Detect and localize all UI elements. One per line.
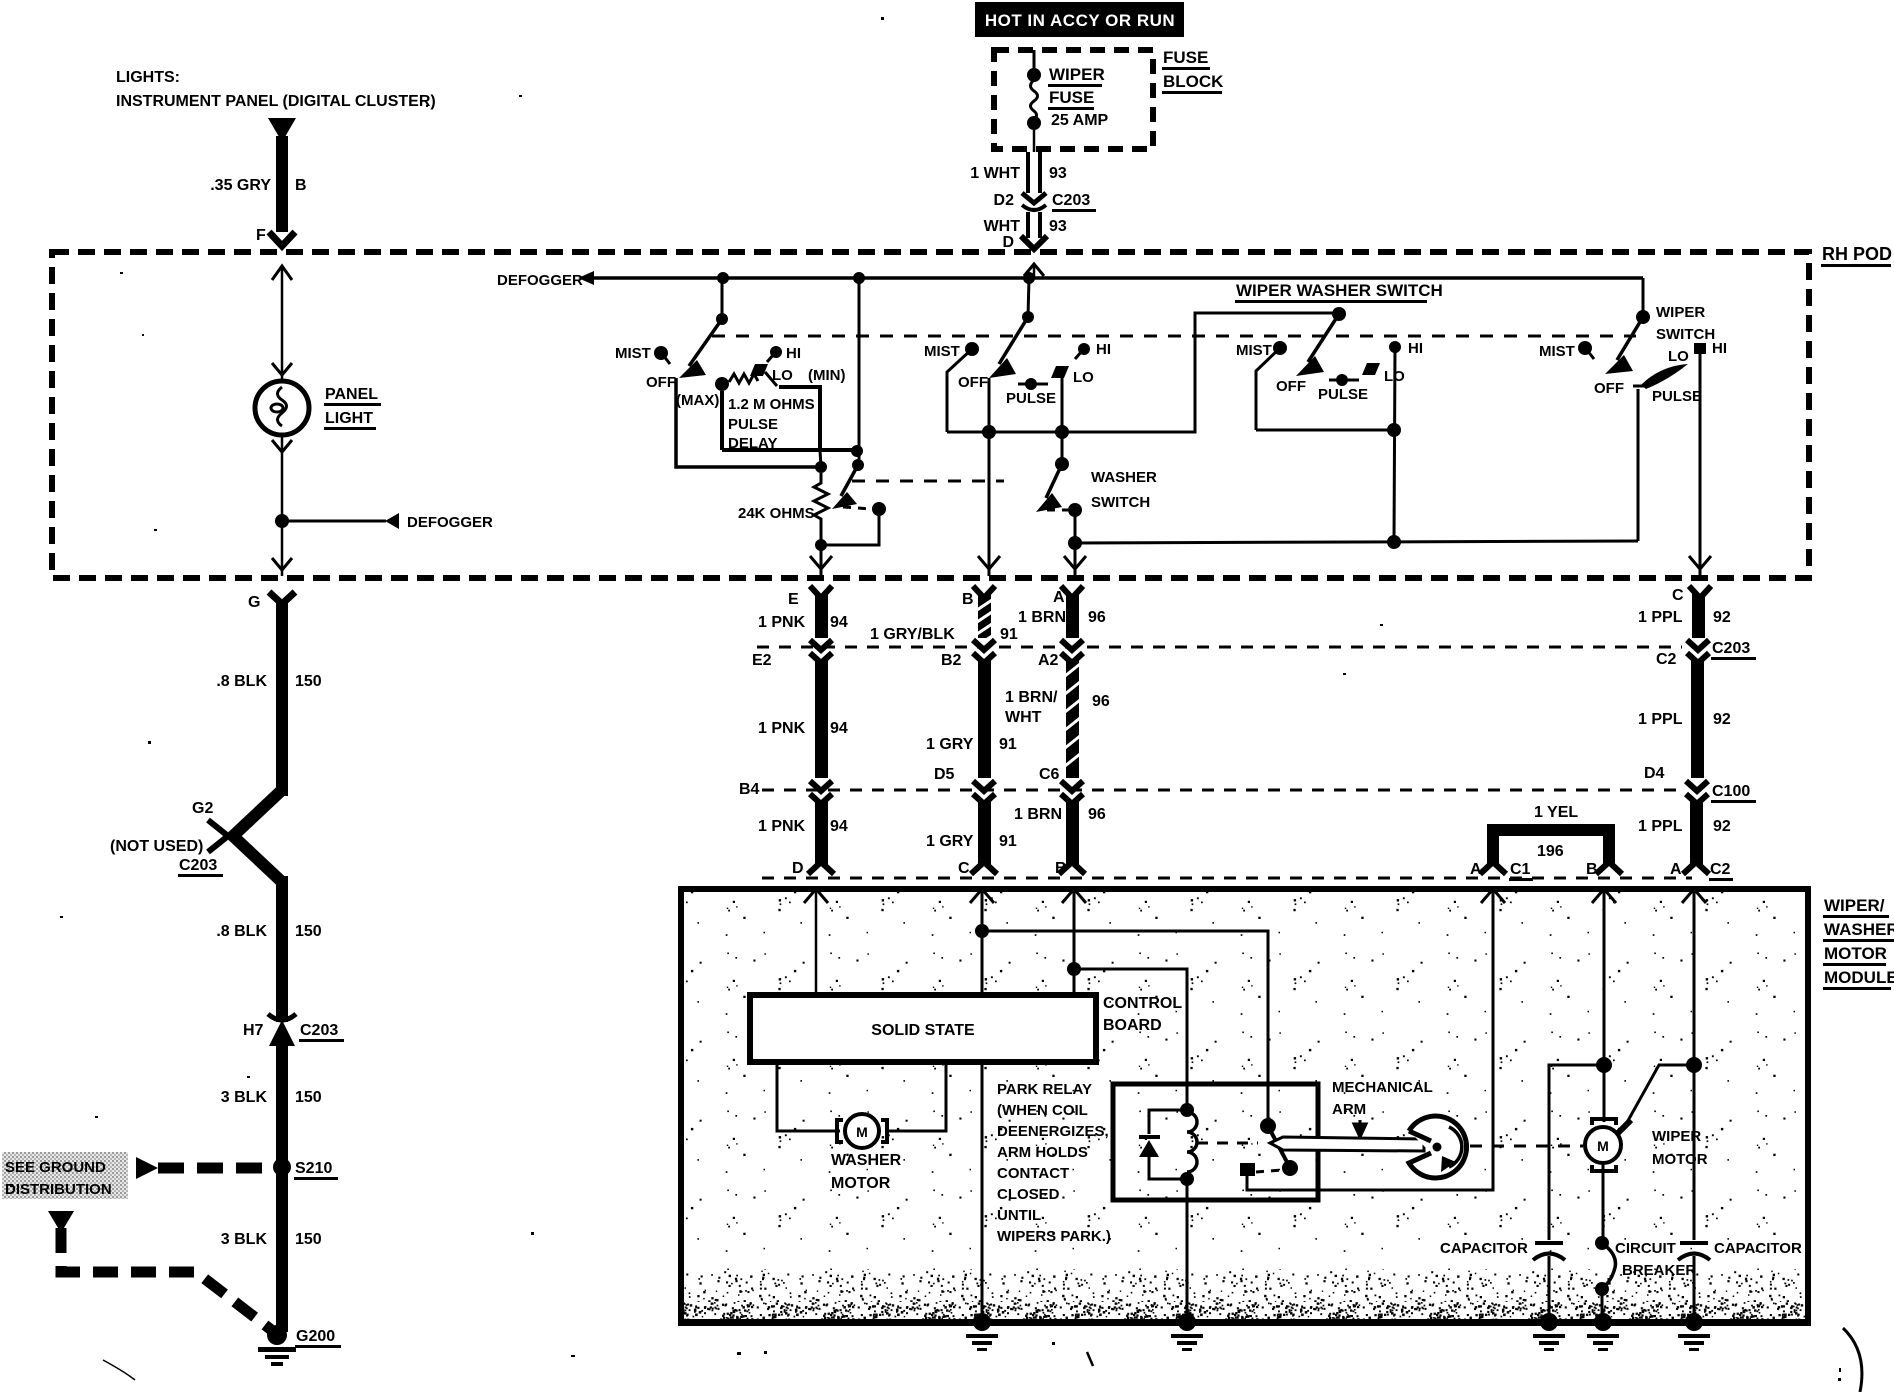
svg-text:91: 91 xyxy=(999,833,1017,850)
label 3 BLK 150 (lower) xyxy=(221,1231,322,1248)
label 1 WHT / 93 xyxy=(970,165,1067,182)
label 1 PNK 94 (bot) xyxy=(758,818,848,835)
contact PULSE assy4 (swoosh) xyxy=(1633,364,1702,405)
label .8 BLK 150 (upper) xyxy=(216,673,321,690)
svg-text:94: 94 xyxy=(830,614,848,631)
svg-text:1 PNK: 1 PNK xyxy=(758,614,806,631)
svg-text:CLOSED: CLOSED xyxy=(997,1186,1060,1203)
label A C1 xyxy=(1470,861,1533,881)
svg-text:1 WHT: 1 WHT xyxy=(970,165,1020,182)
svg-text:1 PPL: 1 PPL xyxy=(1638,609,1683,626)
defogger off-page arrow xyxy=(578,271,594,285)
svg-text:E: E xyxy=(788,591,799,608)
svg-text:1 GRY: 1 GRY xyxy=(926,833,974,850)
wire box bottom to MIN xyxy=(820,448,859,452)
washer switch 1 fixed contact xyxy=(872,502,886,516)
junction assy4 pivot xyxy=(1636,310,1650,324)
svg-text:94: 94 xyxy=(830,720,848,737)
switch arm assy4 xyxy=(1605,317,1643,374)
scan artifact dots xyxy=(10,17,1383,1366)
svg-text:FUSE: FUSE xyxy=(1049,88,1094,107)
fuse block label xyxy=(1162,48,1224,94)
wire 1 WHT 93 (double walled) xyxy=(1028,152,1040,193)
label C100 row xyxy=(1711,783,1756,803)
wire MIN drop xyxy=(858,278,861,465)
svg-text:B: B xyxy=(1586,861,1598,878)
terminal G xyxy=(248,592,295,611)
svg-text:HI: HI xyxy=(1096,341,1111,358)
wire relay coil to ground xyxy=(1186,1179,1189,1318)
connector row module dashed xyxy=(762,877,1692,880)
junction assy1 pivot xyxy=(716,313,728,325)
svg-text:B: B xyxy=(962,591,974,608)
wire assy2 OFF drop xyxy=(988,378,991,432)
junction washer2-pulse bus xyxy=(1068,536,1082,550)
off page arrow ground distribution xyxy=(136,1157,158,1179)
label C203 row xyxy=(1711,640,1756,660)
svg-text:C203: C203 xyxy=(1712,640,1750,657)
wire 3 BLK 150 (upper) xyxy=(276,1042,288,1162)
label CIRCUIT BREAKER xyxy=(1615,1240,1696,1279)
solid state control board xyxy=(750,995,1096,1062)
svg-text:WHT: WHT xyxy=(1005,709,1042,726)
label 1 GRY 91 (mid) xyxy=(926,736,1017,753)
svg-text:(NOT USED): (NOT USED) xyxy=(110,838,203,855)
connector row C203 dashed xyxy=(757,646,1682,649)
wire pulse drop assy4 xyxy=(1637,389,1640,541)
wire assembly4 feed drop xyxy=(1642,278,1645,317)
relay coil xyxy=(1180,1103,1197,1186)
washer switch 2 dashed link xyxy=(1047,509,1068,512)
svg-text:WASHER: WASHER xyxy=(1824,920,1894,939)
wire fuse to connector xyxy=(1033,130,1036,152)
label 1 PNK 94 (top) xyxy=(758,614,848,631)
svg-text:WASHER: WASHER xyxy=(1091,469,1157,486)
scan artifact curve xyxy=(103,1360,135,1380)
potentiometer 1.2M squiggle xyxy=(715,374,758,391)
wire LO to washer pivot xyxy=(1061,432,1064,464)
label .8 BLK 150 (lower) xyxy=(216,923,321,940)
svg-text:PULSE: PULSE xyxy=(1652,388,1702,405)
svg-text:CAPACITOR: CAPACITOR xyxy=(1440,1240,1528,1257)
node C module entry xyxy=(970,889,994,995)
label PARK RELAY note xyxy=(997,1081,1111,1245)
relay blade xyxy=(1260,1118,1298,1176)
junction defogger-assy2 xyxy=(1023,272,1035,284)
svg-text:G2: G2 xyxy=(192,800,213,817)
mechanical arm bar xyxy=(1270,1137,1424,1151)
svg-text:A: A xyxy=(1053,589,1065,606)
pulse bus wire y543 xyxy=(1075,541,1638,543)
wire E (1 PNK 94) pod to module xyxy=(808,586,834,874)
wire D feed into defogger bus xyxy=(1033,264,1036,278)
svg-text:LO: LO xyxy=(1668,348,1689,365)
junction E wire xyxy=(815,539,827,551)
ground (left capacitor) xyxy=(1533,1313,1565,1351)
module label xyxy=(1823,896,1894,990)
wire .8 BLK 150 (lower) xyxy=(276,876,288,1022)
svg-text:MIST: MIST xyxy=(1236,342,1272,359)
svg-text:91: 91 xyxy=(999,736,1017,753)
svg-text:196: 196 xyxy=(1537,843,1564,860)
park relay box xyxy=(1113,1084,1318,1200)
wire .35 GRY B xyxy=(276,136,288,232)
label 1 GRY/BLK 91 xyxy=(870,626,1018,643)
RH POD label xyxy=(1821,244,1892,267)
svg-text:DISTRIBUTION: DISTRIBUTION xyxy=(5,1181,112,1198)
svg-text:A2: A2 xyxy=(1038,652,1059,669)
label 1 BRN 96 (top) xyxy=(1018,609,1106,626)
wire assy1 OFF return xyxy=(676,378,821,467)
label LIGHTS: INSTRUMENT PANEL xyxy=(116,69,436,110)
junction B-capacitor xyxy=(1596,1057,1612,1073)
label D2 / C203 xyxy=(994,192,1096,212)
node A C2 module entry xyxy=(1682,889,1706,1240)
wiper fuse 25A xyxy=(1027,68,1041,130)
label A C2 (bottom) xyxy=(1670,861,1733,881)
svg-text:OFF: OFF xyxy=(1594,380,1624,397)
svg-text:HI: HI xyxy=(786,345,801,362)
washer switch 2 fixed contact xyxy=(1068,503,1082,517)
assy3 bus xyxy=(1256,429,1394,432)
label PANEL LIGHT xyxy=(324,386,381,430)
wire B (GRY/BLK - GRY 91) pod to module xyxy=(971,586,997,874)
mechanical coupling dashed line (wiper) xyxy=(712,335,1636,338)
svg-text:B: B xyxy=(295,177,307,194)
wire assy2 pivot feed xyxy=(1028,278,1029,317)
label 1 PNK 94 (mid) xyxy=(758,720,848,737)
wire WHT 93 (double walled) xyxy=(1028,212,1040,238)
contact PULSE assy2 xyxy=(1006,378,1056,407)
connector G2 not used jog xyxy=(208,790,282,882)
label 1.2 M OHMS PULSE DELAY xyxy=(728,396,815,452)
label WHT / 93 / D xyxy=(984,218,1067,251)
svg-text:91: 91 xyxy=(1000,626,1018,643)
label 1 PPL 92 (bot) xyxy=(1638,818,1731,835)
WIPER WASHER SWITCH title xyxy=(1235,281,1443,303)
svg-text:C: C xyxy=(1672,587,1684,604)
svg-text:DEFOGGER: DEFOGGER xyxy=(497,272,583,289)
svg-text:MIST: MIST xyxy=(924,343,960,360)
contact LO assy1 (pot top) xyxy=(750,364,793,386)
contact HI assy2 xyxy=(1075,341,1111,359)
junction defogger-min wire xyxy=(853,272,865,284)
svg-text:92: 92 xyxy=(1713,609,1731,626)
washer switch 1 dashed link xyxy=(843,507,872,509)
contact MIST assy4 xyxy=(1539,341,1594,360)
svg-text:E2: E2 xyxy=(752,652,772,669)
svg-text:MIST: MIST xyxy=(615,345,651,362)
svg-text:H7: H7 xyxy=(243,1022,264,1039)
washer switch 2 pivot xyxy=(1055,457,1069,471)
svg-text:(WHEN COIL: (WHEN COIL xyxy=(997,1102,1088,1119)
svg-text:25 AMP: 25 AMP xyxy=(1051,112,1109,129)
relay mech dashed link xyxy=(1197,1142,1258,1145)
node D module entry xyxy=(804,889,828,995)
svg-text:MIST: MIST xyxy=(1539,343,1575,360)
svg-text:SOLID STATE: SOLID STATE xyxy=(871,1022,975,1039)
wire box corner drop xyxy=(820,450,821,467)
svg-text:LO: LO xyxy=(1073,369,1094,386)
wire wiper motor to breaker xyxy=(1602,1163,1605,1243)
contact PULSE assy3 xyxy=(1318,374,1368,403)
svg-text:A: A xyxy=(1470,861,1482,878)
wire fuse feed xyxy=(1033,50,1036,73)
washer motor loop right xyxy=(885,1062,946,1131)
node B module entry (right) xyxy=(1592,889,1616,1122)
svg-text:CAPACITOR: CAPACITOR xyxy=(1714,1240,1802,1257)
contact MIST assy2 xyxy=(924,342,979,432)
svg-text:D2: D2 xyxy=(994,192,1015,209)
label 1 PPL 92 (mid) xyxy=(1638,711,1731,728)
svg-text:F: F xyxy=(256,227,266,244)
node B exit arrow xyxy=(978,556,1000,569)
wire A (BRN - BRN/WHT 96) pod to module xyxy=(1059,586,1085,874)
svg-text:D: D xyxy=(1002,234,1014,251)
assy2 bus xyxy=(947,313,1339,432)
svg-text:BREAKER: BREAKER xyxy=(1622,1262,1696,1279)
svg-text:96: 96 xyxy=(1088,609,1106,626)
wire F to panel light xyxy=(281,266,284,381)
cam to motor dashed link xyxy=(1470,1145,1583,1148)
wire 3 BLK 150 (lower) xyxy=(276,1172,288,1332)
junction defogger-assy1 xyxy=(717,272,729,284)
wire A to wiper motor xyxy=(1625,1065,1694,1126)
svg-text:1 GRY: 1 GRY xyxy=(926,736,974,753)
svg-text:MOTOR: MOTOR xyxy=(831,1175,891,1192)
svg-text:MOTOR: MOTOR xyxy=(1824,944,1887,963)
svg-text:150: 150 xyxy=(295,1089,322,1106)
feed arrow (lights) xyxy=(268,118,296,142)
diode xyxy=(1139,1110,1187,1179)
svg-text:1 YEL: 1 YEL xyxy=(1534,804,1578,821)
svg-text:150: 150 xyxy=(295,1231,322,1248)
see ground distribution halftone xyxy=(2,1152,128,1199)
wire C through board to ground xyxy=(981,1062,984,1318)
svg-text:DEFOGGER: DEFOGGER xyxy=(407,514,493,531)
svg-text:WIPER WASHER SWITCH: WIPER WASHER SWITCH xyxy=(1236,281,1443,300)
node F entry arrow xyxy=(272,266,292,280)
wire HI drop assy3 xyxy=(1394,347,1395,542)
mechanical coupling dashed line (washer) xyxy=(852,480,1004,483)
splice S210 xyxy=(273,1158,338,1180)
svg-text:C203: C203 xyxy=(179,857,217,874)
contact HI assy4 xyxy=(1694,340,1727,357)
svg-text:C1: C1 xyxy=(1510,861,1531,878)
svg-text:B: B xyxy=(1055,860,1067,877)
ground (C wire) xyxy=(966,1313,998,1351)
svg-text:OFF: OFF xyxy=(1276,378,1306,395)
wire C branch to park relay blade xyxy=(975,924,1268,1126)
node E exit arrow xyxy=(810,556,832,569)
ground (right capacitor) xyxy=(1678,1313,1710,1351)
terminal D at RH POD xyxy=(1021,236,1047,249)
svg-text:93: 93 xyxy=(1049,218,1067,235)
wiper motor M xyxy=(1585,1119,1631,1171)
fuse block dashed box xyxy=(994,50,1153,149)
park cam xyxy=(1409,1116,1467,1178)
contact HI assy3 xyxy=(1389,340,1423,357)
label .35 GRY / B xyxy=(210,177,306,194)
other ground feed arrow xyxy=(48,1211,74,1233)
svg-text:SWITCH: SWITCH xyxy=(1656,326,1715,343)
ground (relay coil) xyxy=(1171,1313,1203,1351)
wire washer1 return xyxy=(821,509,879,545)
wire assy2 LO drop xyxy=(1061,375,1064,432)
ground G200 xyxy=(258,1325,341,1366)
washer switch 2 arm xyxy=(1036,464,1062,512)
label CONTROL BOARD xyxy=(1103,995,1182,1034)
wire relay contact to A/C1 xyxy=(1247,889,1493,1190)
svg-text:150: 150 xyxy=(295,673,322,690)
contact MIST assy3 xyxy=(1236,341,1287,430)
svg-text:1 PNK: 1 PNK xyxy=(758,818,806,835)
label 1 PPL 92 (top) xyxy=(1638,609,1731,626)
svg-text:.35 GRY: .35 GRY xyxy=(210,177,271,194)
connector C203 pin D2 symbol xyxy=(1022,193,1046,210)
svg-text:C100: C100 xyxy=(1712,783,1750,800)
svg-text:93: 93 xyxy=(1049,165,1067,182)
wire C (1 PPL 92) pod to module xyxy=(1683,586,1711,874)
label WIPER SWITCH xyxy=(1656,304,1715,343)
jumper 1 YEL 196 xyxy=(1480,824,1622,874)
svg-text:150: 150 xyxy=(295,923,322,940)
svg-text:RH POD: RH POD xyxy=(1822,244,1892,264)
relay fixed contact xyxy=(1240,1163,1282,1176)
svg-text:HI: HI xyxy=(1408,340,1423,357)
label WIPER MOTOR xyxy=(1652,1128,1708,1168)
node D entry arrow xyxy=(1024,264,1044,276)
svg-text:G200: G200 xyxy=(296,1328,335,1345)
wire .8 BLK 150 (upper) xyxy=(276,600,288,796)
wiper washer motor module box xyxy=(678,889,1811,1326)
node B module entry xyxy=(1062,889,1086,995)
svg-text:D5: D5 xyxy=(934,766,955,783)
wire B drop to exit xyxy=(988,432,991,576)
wire to terminal E xyxy=(820,545,823,576)
label WASHER SWITCH xyxy=(1091,469,1157,511)
power banner HOT IN ACCY OR RUN xyxy=(975,2,1184,37)
svg-text:HOT IN ACCY OR RUN: HOT IN ACCY OR RUN xyxy=(985,11,1175,30)
svg-text:96: 96 xyxy=(1092,693,1110,710)
svg-text:WIPER: WIPER xyxy=(1652,1128,1701,1145)
svg-text:3 BLK: 3 BLK xyxy=(221,1089,268,1106)
dashed ground wire xyxy=(61,1228,274,1332)
svg-text:(MAX): (MAX) xyxy=(676,392,719,409)
junction box-min xyxy=(851,445,863,457)
svg-text:C6: C6 xyxy=(1039,766,1060,783)
svg-text:WHT: WHT xyxy=(984,218,1021,235)
svg-text:SEE GROUND: SEE GROUND xyxy=(5,1159,106,1176)
svg-text:1.2 M OHMS: 1.2 M OHMS xyxy=(728,396,815,413)
svg-text:C: C xyxy=(958,860,970,877)
capacitor left xyxy=(1533,1243,1565,1318)
svg-text:1 PNK: 1 PNK xyxy=(758,720,806,737)
svg-text:C2: C2 xyxy=(1656,651,1677,668)
junction assy3-pulse bus xyxy=(1387,535,1401,549)
wire assy1 pivot feed xyxy=(721,278,724,319)
svg-text:1 PPL: 1 PPL xyxy=(1638,711,1683,728)
node A C1 module entry xyxy=(1481,889,1505,903)
svg-text:CONTROL: CONTROL xyxy=(1103,995,1182,1012)
svg-text:1 BRN: 1 BRN xyxy=(1018,609,1066,626)
svg-text:UNTIL: UNTIL xyxy=(997,1207,1041,1224)
ground (circuit breaker) xyxy=(1587,1313,1619,1351)
junction A-motor xyxy=(1686,1057,1702,1073)
svg-text:96: 96 xyxy=(1088,806,1106,823)
svg-text:C203: C203 xyxy=(1052,192,1090,209)
resistor 24K OHMS xyxy=(814,473,828,545)
contact MIST assy1 xyxy=(615,345,670,364)
junction bus-LO xyxy=(1055,425,1069,439)
svg-text:MODULE: MODULE xyxy=(1824,968,1894,987)
svg-text:WIPER: WIPER xyxy=(1049,65,1105,84)
svg-text:PULSE: PULSE xyxy=(728,416,778,433)
svg-text:.8 BLK: .8 BLK xyxy=(216,673,267,690)
washer motor M xyxy=(837,1114,887,1148)
svg-text:B2: B2 xyxy=(941,652,962,669)
circuit breaker xyxy=(1595,1236,1616,1318)
node A exit arrow xyxy=(1064,556,1086,569)
svg-text:S210: S210 xyxy=(295,1160,332,1177)
washer switch 1 pivot xyxy=(852,459,864,471)
washer motor loop left xyxy=(777,1062,840,1131)
label G2 (NOT USED) C203 xyxy=(110,800,223,877)
svg-text:PULSE: PULSE xyxy=(1318,386,1368,403)
svg-text:WIPERS PARK.): WIPERS PARK.) xyxy=(997,1228,1111,1245)
svg-text:SWITCH: SWITCH xyxy=(1091,494,1150,511)
svg-text:WASHER: WASHER xyxy=(831,1152,902,1169)
node G exit arrow xyxy=(272,558,292,570)
svg-text:ARM: ARM xyxy=(1332,1101,1366,1118)
svg-text:PARK RELAY: PARK RELAY xyxy=(997,1081,1092,1098)
terminal F xyxy=(256,227,295,246)
svg-text:M: M xyxy=(856,1124,868,1140)
label WASHER MOTOR xyxy=(831,1152,902,1192)
svg-text:PULSE: PULSE xyxy=(1006,390,1056,407)
svg-text:3 BLK: 3 BLK xyxy=(221,1231,268,1248)
svg-text:G: G xyxy=(248,594,260,611)
svg-text:MOTOR: MOTOR xyxy=(1652,1151,1708,1168)
svg-text:(MIN): (MIN) xyxy=(808,367,846,384)
svg-text:D4: D4 xyxy=(1644,765,1665,782)
washer switch 1 arm xyxy=(832,465,858,509)
svg-text:C2: C2 xyxy=(1710,861,1731,878)
connector row C100 dashed xyxy=(762,789,1682,792)
svg-text:FUSE: FUSE xyxy=(1163,48,1208,67)
svg-text:92: 92 xyxy=(1713,711,1731,728)
scan artifact arc bottom right xyxy=(1838,1328,1862,1392)
junction bus-B xyxy=(982,425,996,439)
label 1 GRY 91 (bot) xyxy=(926,833,1017,850)
svg-text:24K OHMS: 24K OHMS xyxy=(738,505,815,522)
svg-text:DELAY: DELAY xyxy=(728,435,777,452)
svg-text:1 GRY/BLK: 1 GRY/BLK xyxy=(870,626,955,643)
defogger off-page arrow (lower) xyxy=(385,513,399,529)
switch arm assy3 xyxy=(1296,314,1339,376)
capacitor right xyxy=(1678,1243,1710,1318)
svg-text:CONTACT: CONTACT xyxy=(997,1165,1069,1182)
label MECHANICAL ARM xyxy=(1332,1079,1433,1137)
contact LO assy2 xyxy=(1051,366,1094,386)
svg-text:CIRCUIT: CIRCUIT xyxy=(1615,1240,1676,1257)
wire washer2 to A exit xyxy=(1074,510,1077,576)
svg-text:LO: LO xyxy=(772,367,793,384)
svg-text:ARM HOLDS: ARM HOLDS xyxy=(997,1144,1088,1161)
contact HI assy1 xyxy=(767,345,801,362)
svg-text:C203: C203 xyxy=(300,1022,338,1039)
svg-text:B4: B4 xyxy=(739,781,760,798)
